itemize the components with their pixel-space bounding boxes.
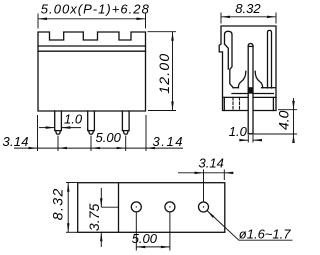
svg-text:3.75: 3.75 [86, 203, 102, 231]
svg-text:ø1.6~1.7: ø1.6~1.7 [239, 227, 291, 242]
svg-text:3.14: 3.14 [153, 134, 183, 149]
svg-text:4.0: 4.0 [275, 110, 291, 130]
svg-text:12.00: 12.00 [156, 54, 172, 94]
svg-text:1.0: 1.0 [229, 124, 248, 139]
svg-text:5.00: 5.00 [96, 130, 122, 145]
svg-text:1.0: 1.0 [64, 111, 83, 126]
svg-text:8.32: 8.32 [235, 1, 261, 16]
svg-text:8.32: 8.32 [50, 188, 66, 220]
svg-text:5.00x(P-1)+6.28: 5.00x(P-1)+6.28 [41, 2, 150, 17]
svg-text:5.00: 5.00 [132, 231, 158, 246]
svg-text:3.14: 3.14 [3, 134, 29, 149]
svg-text:3.14: 3.14 [199, 156, 224, 171]
